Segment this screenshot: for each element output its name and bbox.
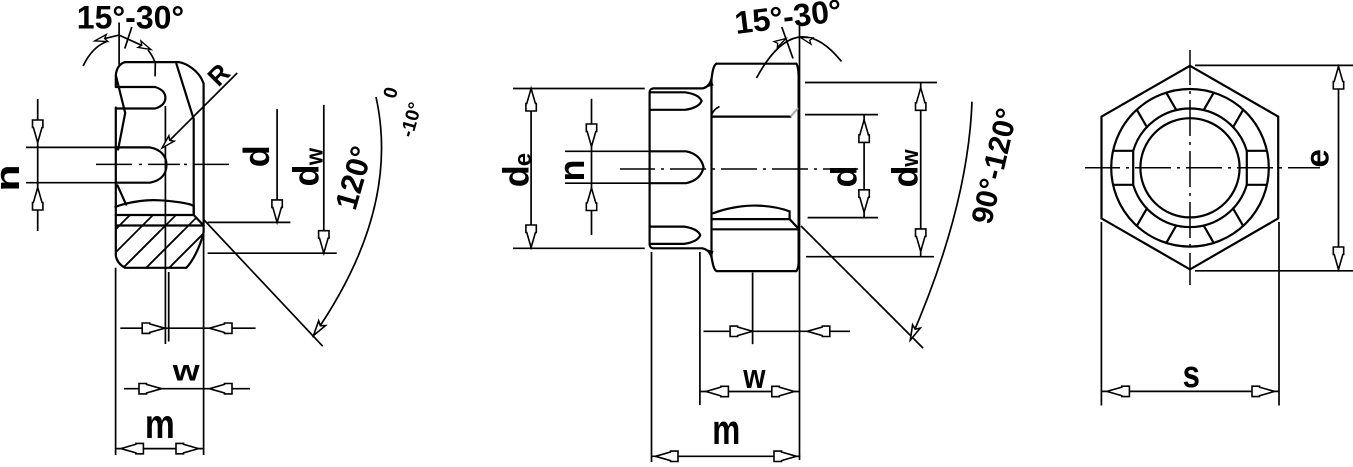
svg-text:d: d [236,145,277,167]
svg-text:m: m [712,406,740,454]
svg-text:e: e [510,153,537,166]
svg-text:d: d [824,166,865,188]
svg-text:s: s [1183,354,1200,396]
svg-text:n: n [0,164,27,191]
svg-text:d: d [885,166,926,188]
svg-text:m: m [145,401,175,447]
svg-text:w: w [172,354,201,387]
svg-text:w: w [301,148,328,166]
svg-text:w: w [896,149,923,167]
svg-text:e: e [1299,149,1336,167]
svg-text:d: d [286,165,327,187]
svg-text:n: n [551,160,592,182]
svg-text:d: d [496,165,537,187]
svg-text:w: w [742,358,766,396]
